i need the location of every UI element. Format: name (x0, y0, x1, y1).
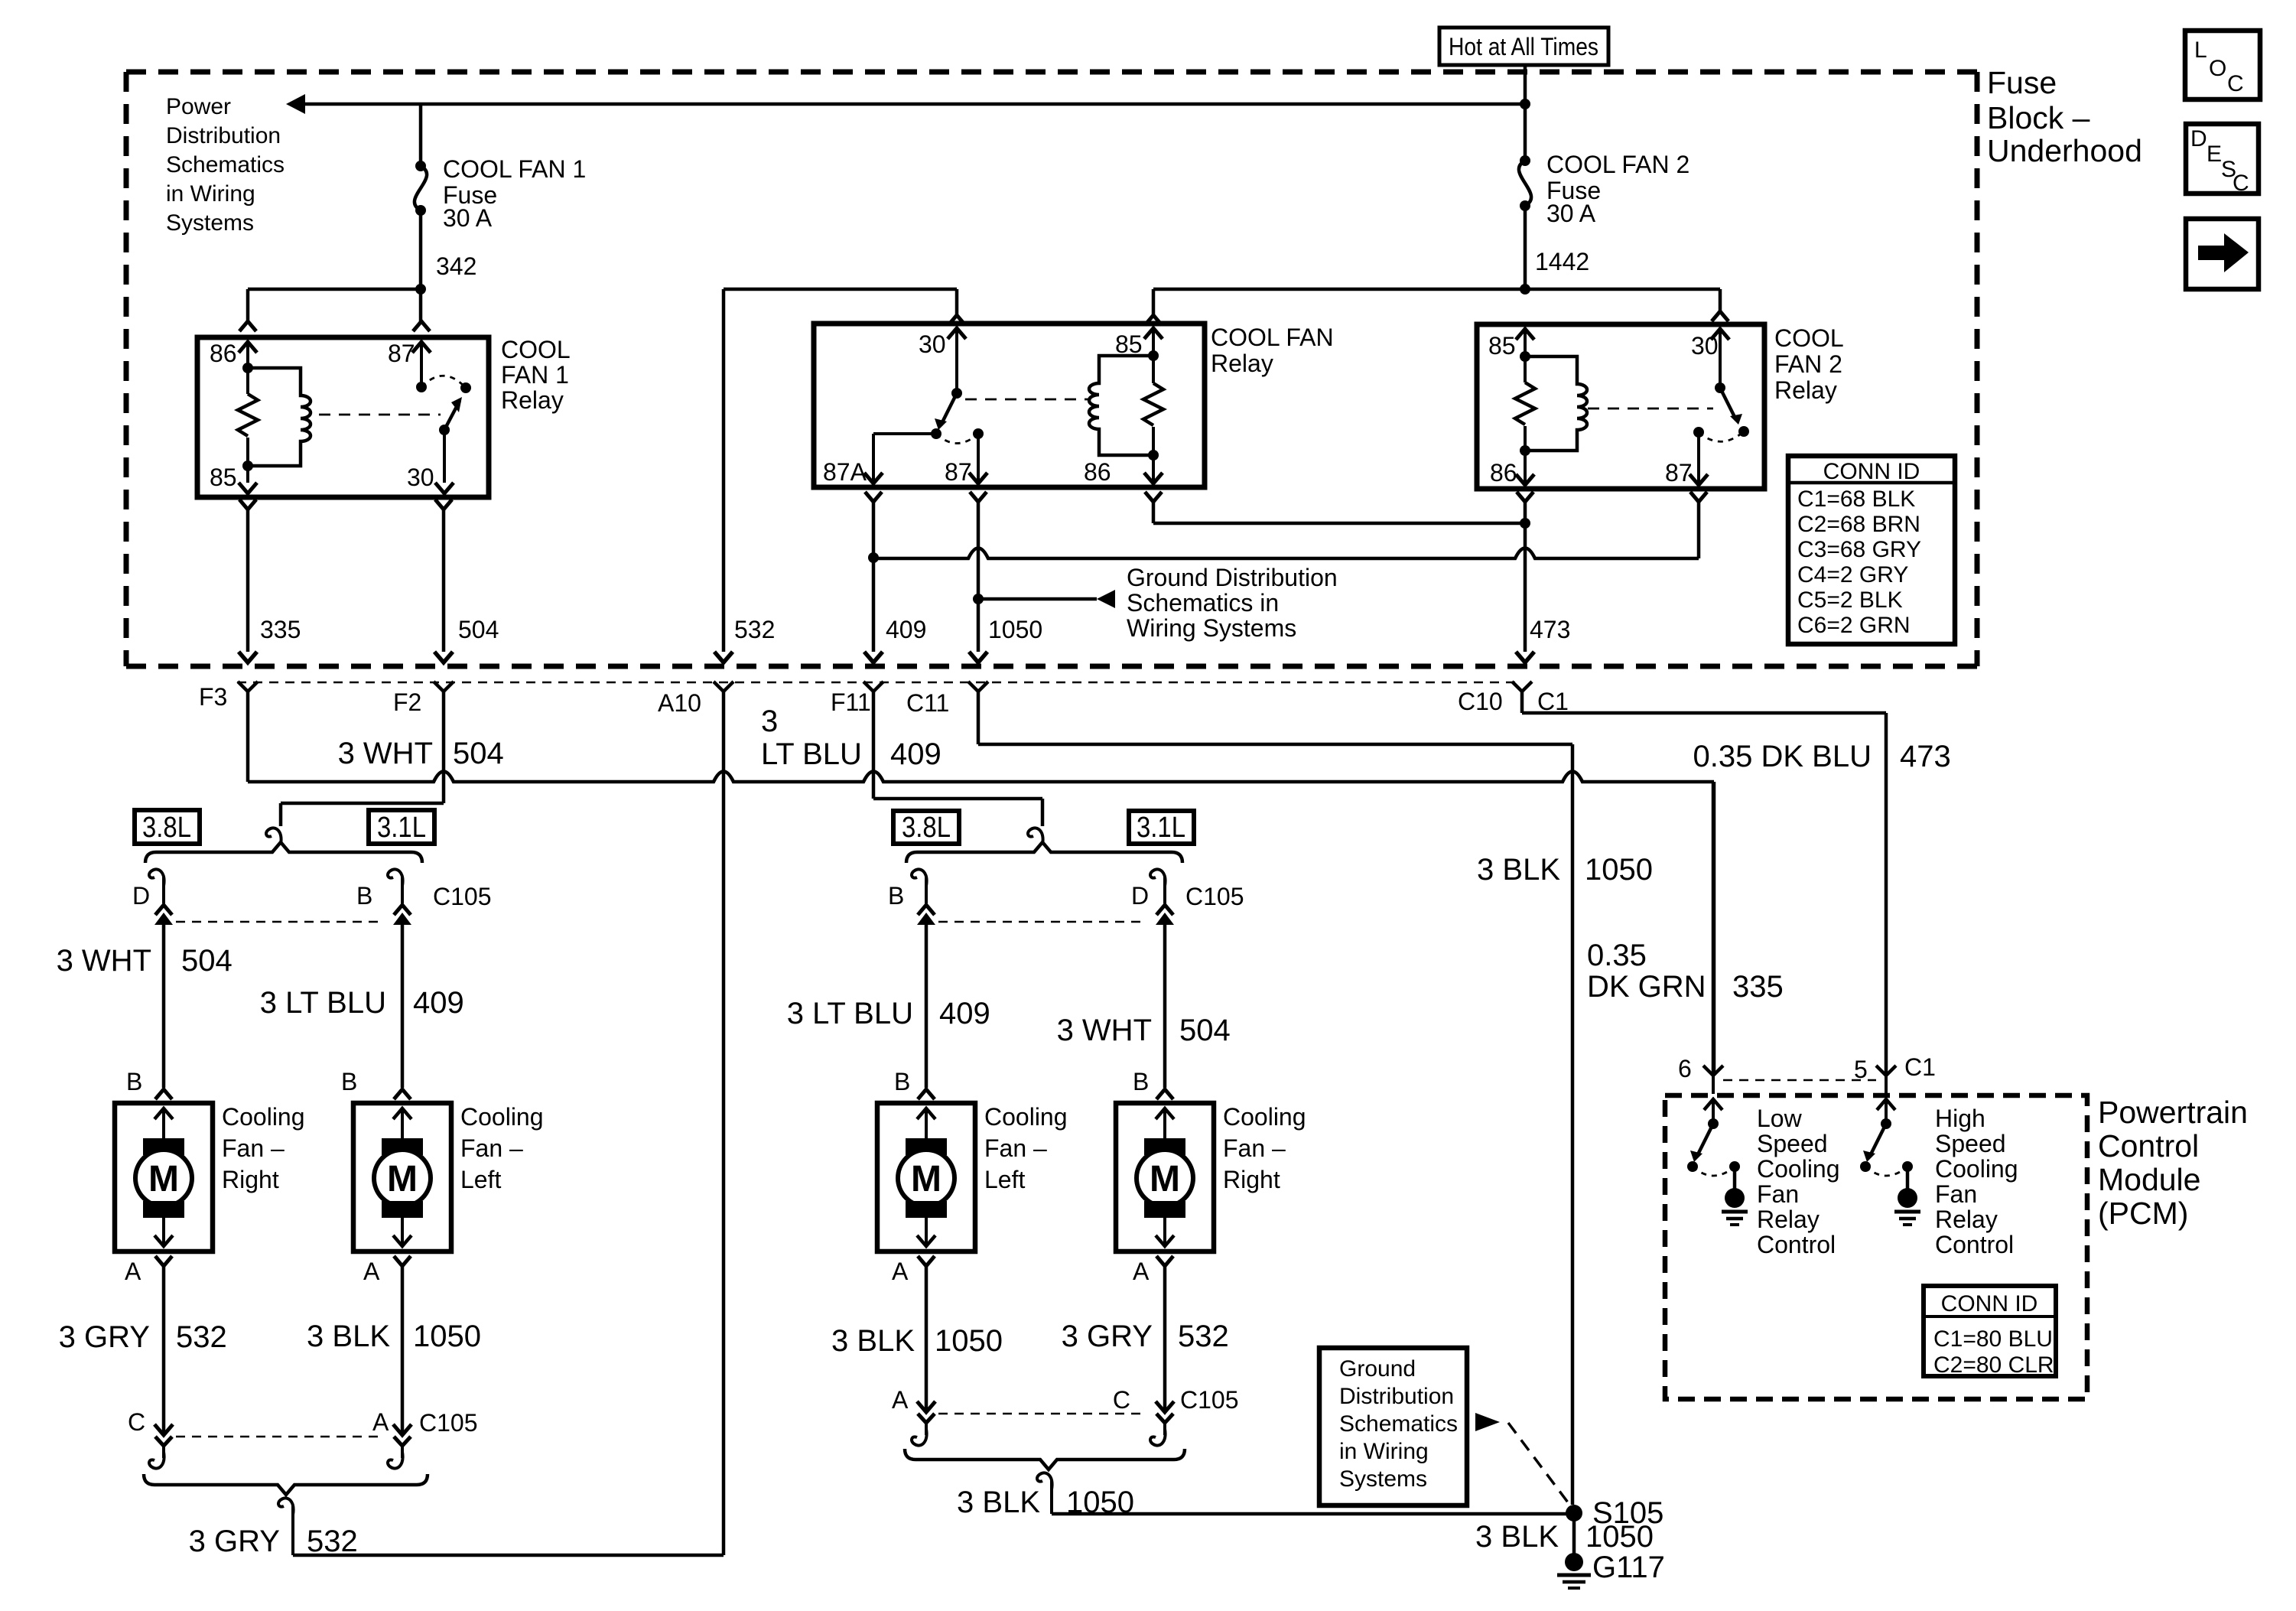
svg-text:3.8L: 3.8L (902, 812, 951, 844)
relay1 actuation dashed link (319, 414, 441, 416)
svg-text:LT BLU: LT BLU (761, 737, 862, 771)
svg-text:532: 532 (176, 1320, 227, 1354)
svg-text:30 A: 30 A (1546, 200, 1596, 227)
svg-text:30: 30 (919, 330, 946, 358)
svg-text:C105: C105 (1180, 1386, 1239, 1414)
svg-text:in Wiring: in Wiring (166, 181, 255, 207)
svg-text:L: L (2194, 37, 2207, 63)
svg-text:C105: C105 (419, 1409, 478, 1437)
wire crossing arrow at x=946 (714, 652, 733, 662)
svg-text:Right: Right (222, 1166, 279, 1193)
wire 1050 (977, 502, 981, 652)
svg-text:E: E (2207, 142, 2222, 167)
svg-text:Underhood: Underhood (1987, 133, 2142, 168)
svg-text:30 A: 30 A (443, 204, 493, 232)
svg-text:532: 532 (307, 1525, 358, 1558)
dashed reference line to S105 (1508, 1423, 1572, 1508)
svg-text:335: 335 (260, 616, 301, 643)
svg-text:B: B (888, 882, 904, 910)
svg-text:Systems: Systems (166, 210, 254, 236)
connector C11 (968, 682, 988, 692)
svg-text:D: D (132, 882, 150, 910)
svg-text:Cooling: Cooling (460, 1103, 544, 1131)
svg-text:86: 86 (210, 340, 237, 367)
motor armature M (898, 1150, 954, 1206)
wire 473 C10 to PCM (1520, 692, 1524, 713)
wire crossing arrow at x=1279 (969, 652, 987, 662)
svg-text:Speed: Speed (1757, 1130, 1828, 1157)
motor pin B arrow (393, 1108, 411, 1119)
motor pin B arrow (1156, 1108, 1174, 1119)
wire 532 vertical (722, 289, 726, 652)
middle split brace (906, 842, 1182, 863)
svg-text:504: 504 (458, 616, 499, 643)
PCM pin 5 connector (1876, 1066, 1896, 1076)
svg-text:A: A (892, 1258, 909, 1285)
connector into relay1 pin86 (239, 321, 256, 331)
svg-text:M: M (1150, 1159, 1180, 1199)
svg-text:A: A (1133, 1258, 1150, 1285)
svg-text:335: 335 (1732, 970, 1784, 1004)
svg-text:Fan –: Fan – (1223, 1134, 1286, 1162)
svg-text:Left: Left (460, 1166, 501, 1193)
svg-text:1050: 1050 (935, 1324, 1003, 1358)
wire 532 branch to middle relay 30 (724, 288, 957, 291)
svg-text:3 GRY: 3 GRY (59, 1320, 150, 1354)
relay1 switch (416, 382, 427, 392)
middle branch B stub (925, 877, 928, 903)
ground symbol high speed (1898, 1188, 1917, 1208)
middle branch D stub (1163, 877, 1166, 903)
cool fan relay actuation dashed link (965, 399, 1089, 401)
cool fan relay coil (1148, 350, 1159, 361)
svg-text:Cooling: Cooling (984, 1103, 1068, 1131)
PCM low speed driver switch (1704, 1099, 1722, 1110)
motor armature M (374, 1150, 431, 1206)
svg-text:87A: 87A (823, 458, 867, 486)
relay2 coil (1520, 351, 1530, 362)
svg-text:CONN ID: CONN ID (1941, 1291, 2038, 1316)
motor brush top (382, 1138, 423, 1155)
fuse COOL FAN 2 Fuse 30A (1520, 155, 1530, 166)
wire 409 F11 drop (872, 692, 876, 799)
svg-text:Right: Right (1223, 1166, 1280, 1193)
svg-text:Cooling: Cooling (1757, 1155, 1840, 1183)
svg-text:FAN 2: FAN 2 (1774, 350, 1842, 378)
wire 335 (246, 509, 250, 652)
ground symbol low speed (1725, 1188, 1745, 1208)
svg-text:CONN ID: CONN ID (1823, 459, 1920, 484)
relay2 actuation dashed link (1588, 408, 1713, 410)
svg-text:3 BLK: 3 BLK (307, 1320, 390, 1353)
svg-text:3: 3 (761, 705, 778, 738)
wire 532 return to A10 (293, 1554, 724, 1557)
bottom curls left group (149, 1452, 164, 1469)
svg-text:85: 85 (1115, 330, 1143, 358)
cooling fan motor Cooling Left box (353, 1103, 451, 1251)
svg-text:Relay: Relay (501, 386, 564, 414)
cooling fan motor Cooling Right box (1116, 1103, 1214, 1251)
motor pin A arrow (925, 1216, 928, 1245)
engine option box 3.1L middle (1129, 811, 1194, 844)
connector C105 pin symbol (918, 905, 935, 915)
relay2 86 exit connector (1517, 492, 1533, 502)
bottom brace middle group (905, 1449, 1185, 1469)
wire from Hot at All Times (1524, 65, 1527, 161)
connector F11 (863, 682, 883, 692)
svg-text:Control: Control (1935, 1231, 2014, 1258)
svg-text:B: B (1133, 1068, 1149, 1095)
svg-text:3 GRY: 3 GRY (189, 1525, 280, 1558)
wire 409 (872, 558, 876, 652)
left branch B stub (401, 877, 404, 903)
connector row dashed line (237, 682, 1522, 684)
svg-text:Schematics in: Schematics in (1127, 589, 1279, 617)
connector F2 (434, 682, 454, 692)
svg-text:Fan –: Fan – (460, 1134, 523, 1162)
wire 532 A10 long drop (722, 692, 726, 1555)
wire crossing arrow at x=580 (434, 652, 453, 662)
Ground Distribution Schematics box (1319, 1348, 1467, 1505)
svg-text:3 WHT: 3 WHT (1057, 1014, 1152, 1047)
svg-text:3 LT BLU: 3 LT BLU (787, 997, 913, 1030)
svg-text:A: A (372, 1408, 389, 1436)
svg-text:Fan –: Fan – (222, 1134, 285, 1162)
svg-text:F11: F11 (831, 688, 871, 716)
wire crossing arrow at x=1994 (1516, 652, 1534, 662)
svg-text:Cooling: Cooling (1223, 1103, 1306, 1131)
node 1442 junction (1520, 284, 1530, 295)
C105 bottom dashed left (176, 1436, 382, 1438)
svg-text:A: A (125, 1258, 141, 1285)
svg-text:1050: 1050 (1585, 853, 1653, 887)
svg-text:Powertrain: Powertrain (2098, 1095, 2248, 1130)
relay1 resistor (246, 368, 249, 394)
svg-text:COOL FAN 2: COOL FAN 2 (1546, 151, 1689, 178)
connector into cool fan relay pin30 (948, 315, 965, 325)
svg-text:Schematics: Schematics (1339, 1411, 1458, 1437)
wire to relay1 pins (248, 288, 421, 291)
svg-text:Distribution: Distribution (1339, 1384, 1454, 1409)
svg-text:Module: Module (2098, 1162, 2200, 1197)
svg-text:3 BLK: 3 BLK (1475, 1520, 1559, 1554)
bottom curls middle group (912, 1429, 927, 1446)
middle split stub from 409 (1041, 799, 1045, 826)
motor brush bottom (906, 1201, 947, 1218)
svg-text:C1=80 BLU: C1=80 BLU (1933, 1326, 2053, 1352)
node 473 junction (1524, 502, 1527, 652)
relay COOL FAN 1 Relay box (197, 337, 489, 497)
svg-text:F3: F3 (199, 683, 227, 711)
svg-text:C10: C10 (1458, 688, 1503, 715)
forward arrow box (2186, 219, 2259, 289)
svg-text:504: 504 (181, 944, 233, 978)
wire 1442 (1524, 206, 1527, 289)
svg-text:C4=2 GRY: C4=2 GRY (1797, 562, 1908, 587)
motor brush bottom (143, 1201, 184, 1218)
svg-text:B: B (341, 1068, 357, 1095)
relay1 pin85 exit connector (239, 500, 256, 509)
svg-text:D: D (2190, 126, 2207, 151)
PCM dashed outline (1665, 1095, 2087, 1399)
svg-text:F2: F2 (393, 688, 421, 716)
wire 504 F2 drop (442, 692, 446, 803)
connector C10 C1 (1512, 682, 1532, 692)
node S105 (1566, 1505, 1582, 1521)
wire 504 (442, 509, 446, 652)
connector C105 pin symbol (155, 905, 172, 915)
svg-text:3 LT BLU: 3 LT BLU (260, 986, 386, 1020)
svg-text:3 BLK: 3 BLK (1477, 853, 1560, 887)
svg-text:532: 532 (1178, 1320, 1229, 1353)
motor pin B arrow (154, 1108, 173, 1119)
svg-text:B: B (894, 1068, 910, 1095)
relay2 87 exit connector (1690, 492, 1707, 502)
svg-text:Relay: Relay (1935, 1206, 1998, 1233)
wire 1050 C11 drop (977, 692, 981, 744)
svg-text:Ground: Ground (1339, 1356, 1416, 1382)
svg-text:M: M (148, 1159, 179, 1199)
relay1 coil (242, 363, 253, 373)
svg-text:G117: G117 (1592, 1551, 1665, 1584)
svg-text:409: 409 (939, 997, 990, 1030)
svg-text:Schematics: Schematics (166, 152, 285, 177)
wire 1442 to middle relay 85 (1153, 288, 1720, 291)
cool fan relay 86 exit connector (1145, 492, 1162, 502)
wire 3 LT BLU 409 to left fan (middle) (925, 925, 928, 1088)
svg-text:3 GRY: 3 GRY (1062, 1320, 1153, 1353)
svg-text:86: 86 (1490, 459, 1517, 487)
relay COOL FAN Relay box (814, 324, 1205, 487)
wire 3 LT BLU 409 to left fan (401, 925, 405, 1088)
C105 dashed line middle (938, 921, 1145, 923)
wire 3 GRY 532 down (162, 1266, 166, 1432)
PCM connector dashed line (1723, 1079, 1876, 1082)
svg-text:C2=68 BRN: C2=68 BRN (1797, 512, 1920, 537)
connector into relay2 pin30 (1712, 311, 1729, 321)
stub below middle brace (1037, 1473, 1052, 1489)
C105 bottom dashed middle (938, 1413, 1145, 1415)
cooling fan motor Cooling Left box (877, 1103, 975, 1251)
reference arrow right (1475, 1413, 1500, 1431)
motor armature M (135, 1150, 192, 1206)
wire fuse1 drop (419, 104, 423, 166)
C105 dashed line left (176, 921, 382, 923)
motor brush top (143, 1138, 184, 1155)
svg-text:COOL: COOL (501, 336, 571, 363)
left split brace (145, 842, 422, 863)
svg-text:C5=2 BLK: C5=2 BLK (1797, 587, 1903, 613)
svg-text:409: 409 (413, 986, 464, 1020)
svg-text:DK GRN: DK GRN (1587, 970, 1706, 1004)
svg-text:C105: C105 (1185, 883, 1244, 910)
motor brush bottom (1144, 1201, 1185, 1218)
svg-text:M: M (387, 1159, 418, 1199)
svg-text:D: D (1131, 882, 1149, 910)
svg-text:532: 532 (734, 616, 775, 643)
wire 3 BLK 1050 to ground (1572, 1513, 1576, 1561)
svg-text:1050: 1050 (1585, 1520, 1654, 1554)
CONN ID table fuse block (1788, 456, 1955, 644)
stub below left brace (278, 1498, 294, 1515)
cool fan relay 87 exit connector (970, 492, 987, 502)
relay2 switch (1715, 382, 1725, 393)
svg-text:0.35: 0.35 (1587, 939, 1647, 972)
connector into cool fan relay pin85 (1145, 315, 1162, 325)
motor brush bottom (382, 1201, 423, 1218)
svg-text:COOL FAN: COOL FAN (1211, 324, 1334, 351)
svg-text:C1: C1 (1904, 1053, 1936, 1081)
relay1 pin30 exit connector (435, 500, 452, 509)
svg-text:Distribution: Distribution (166, 123, 281, 148)
svg-text:COOL FAN 1: COOL FAN 1 (443, 155, 586, 183)
svg-text:342: 342 (436, 252, 476, 280)
svg-text:473: 473 (1530, 616, 1570, 643)
wire top feed line (304, 103, 1525, 106)
relay COOL FAN 2 Relay box (1477, 324, 1764, 489)
wire 335 F3 long run to PCM (246, 692, 250, 782)
svg-text:3.8L: 3.8L (142, 812, 191, 844)
engine option box 3.8L middle (893, 811, 959, 844)
svg-text:C: C (2233, 171, 2249, 196)
node 342 junction (415, 284, 426, 295)
svg-text:Control: Control (2098, 1128, 2199, 1163)
wire 1050 to S105 (1052, 1512, 1574, 1516)
svg-text:C105: C105 (433, 883, 492, 910)
wire 1442 to relay2 30 (1719, 289, 1722, 311)
svg-text:M: M (911, 1159, 941, 1199)
svg-text:C11: C11 (906, 689, 949, 717)
svg-text:High: High (1935, 1105, 1985, 1132)
connector A10 (714, 682, 733, 692)
engine option box 3.8L left (135, 810, 200, 844)
wire 342 (419, 210, 423, 289)
svg-text:Speed: Speed (1935, 1130, 2006, 1157)
svg-text:A: A (892, 1386, 909, 1414)
motor pin A arrow (162, 1216, 165, 1245)
svg-text:C1: C1 (1537, 688, 1569, 715)
engine option box 3.1L left (369, 810, 434, 844)
svg-text:Fan: Fan (1935, 1180, 1977, 1208)
svg-text:3.1L: 3.1L (377, 812, 426, 844)
svg-text:3 WHT: 3 WHT (338, 737, 433, 770)
svg-text:Fan –: Fan – (984, 1134, 1047, 1162)
svg-text:Systems: Systems (1339, 1466, 1427, 1492)
motor pin A arrow (1163, 1216, 1166, 1245)
svg-text:A: A (363, 1258, 380, 1285)
svg-text:504: 504 (453, 737, 504, 770)
svg-text:87: 87 (945, 458, 972, 486)
svg-text:Relay: Relay (1774, 376, 1837, 404)
svg-text:Power: Power (166, 94, 231, 119)
fuse block underhood dashed outline (126, 70, 1977, 75)
svg-text:C: C (128, 1408, 145, 1436)
wire 3 WHT 504 to right fan (162, 925, 166, 1088)
svg-text:6: 6 (1678, 1055, 1692, 1082)
cool fan relay switch (951, 388, 962, 399)
feed arrow to power distribution (286, 94, 305, 114)
relay2 resistor (1524, 356, 1527, 382)
svg-text:30: 30 (407, 464, 434, 491)
left split stub from 504 (279, 803, 283, 826)
motor brush top (1144, 1138, 1185, 1155)
svg-text:C: C (1113, 1386, 1130, 1414)
svg-text:Relay: Relay (1757, 1206, 1820, 1233)
wire cool fan relay 86 to relay2 86 (1152, 502, 1156, 523)
svg-text:B: B (356, 882, 372, 910)
svg-text:1442: 1442 (1535, 248, 1589, 275)
svg-text:C6=2 GRN: C6=2 GRN (1797, 613, 1911, 638)
svg-text:Low: Low (1757, 1105, 1803, 1132)
svg-text:C1=68 BLK: C1=68 BLK (1797, 487, 1915, 512)
svg-text:in Wiring: in Wiring (1339, 1439, 1429, 1464)
svg-text:B: B (126, 1068, 142, 1095)
Hot at All Times box (1439, 28, 1608, 65)
connector C105 pin symbol (1156, 905, 1173, 915)
connector into relay1 pin87 (413, 321, 430, 331)
svg-text:Ground Distribution: Ground Distribution (1127, 564, 1338, 591)
svg-text:1050: 1050 (988, 616, 1042, 643)
PCM pin 6 connector (1703, 1066, 1723, 1076)
svg-text:COOL: COOL (1774, 324, 1844, 352)
motor armature M (1137, 1150, 1193, 1206)
svg-text:Fuse: Fuse (1987, 65, 2057, 100)
connector F3 (238, 682, 258, 692)
wire 3 GRY 532 down (middle) (1163, 1266, 1167, 1409)
svg-text:409: 409 (886, 616, 926, 643)
motor brush top (906, 1138, 947, 1155)
svg-text:87: 87 (1665, 459, 1693, 487)
DESC reference box (2186, 124, 2259, 194)
svg-text:473: 473 (1900, 740, 1951, 773)
LOC reference box (2185, 31, 2260, 99)
svg-text:(PCM): (PCM) (2098, 1196, 2188, 1231)
svg-text:C: C (2227, 71, 2244, 96)
svg-text:1050: 1050 (413, 1320, 481, 1353)
connector C105 pin symbol (394, 905, 411, 915)
cool fan relay 87A exit connector (865, 492, 882, 502)
svg-text:C2=80 CLR: C2=80 CLR (1933, 1352, 2054, 1378)
svg-text:O: O (2209, 56, 2226, 81)
wire 3 BLK 1050 down (middle) (925, 1266, 928, 1409)
cool fan relay resistor (1152, 356, 1155, 383)
svg-text:3 BLK: 3 BLK (831, 1324, 915, 1358)
svg-text:Block –: Block – (1987, 100, 2090, 135)
svg-text:Wiring Systems: Wiring Systems (1127, 614, 1296, 642)
wire 87A to relay2 87 (872, 502, 876, 558)
wire 3 WHT 504 to right fan (middle) (1163, 925, 1167, 1088)
ground G117 (1565, 1553, 1583, 1571)
motor pin A arrow (401, 1216, 404, 1245)
svg-text:Control: Control (1757, 1231, 1836, 1258)
svg-text:85: 85 (1488, 332, 1516, 360)
svg-text:86: 86 (1084, 458, 1111, 486)
svg-text:C3=68 GRY: C3=68 GRY (1797, 537, 1921, 562)
wire crossing arrow at x=324 (239, 652, 257, 662)
PCM high speed driver switch (1877, 1099, 1895, 1110)
svg-text:Cooling: Cooling (1935, 1155, 2018, 1183)
svg-text:504: 504 (1179, 1014, 1231, 1047)
svg-text:Hot at All Times: Hot at All Times (1449, 33, 1598, 60)
svg-text:3 WHT: 3 WHT (57, 944, 151, 978)
motor pin B arrow (917, 1108, 935, 1119)
svg-text:5: 5 (1854, 1056, 1868, 1083)
svg-text:0.35 DK BLU: 0.35 DK BLU (1693, 740, 1872, 773)
wire 3 BLK 1050 down (401, 1266, 405, 1432)
cooling fan motor Cooling Right box (115, 1103, 213, 1251)
svg-text:Relay: Relay (1211, 350, 1273, 377)
svg-text:87: 87 (388, 340, 415, 367)
